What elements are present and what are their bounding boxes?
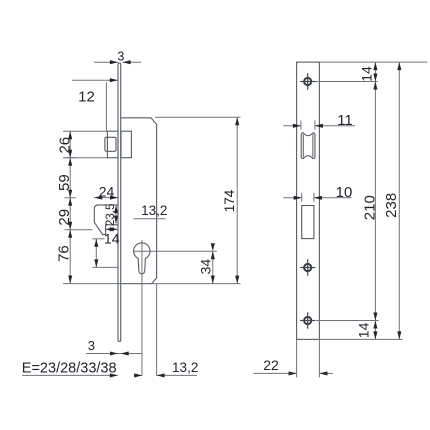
- svg-text:24: 24: [99, 183, 115, 199]
- svg-text:E=23/28/33/38: E=23/28/33/38: [22, 361, 117, 377]
- svg-text:238: 238: [383, 193, 400, 218]
- svg-text:10: 10: [336, 184, 353, 201]
- svg-text:59: 59: [56, 174, 73, 191]
- svg-text:174: 174: [222, 189, 237, 212]
- svg-text:14: 14: [358, 66, 374, 82]
- svg-text:14: 14: [356, 322, 372, 338]
- svg-text:13,2: 13,2: [141, 203, 167, 218]
- svg-text:3: 3: [117, 49, 124, 63]
- svg-text:12: 12: [78, 88, 95, 105]
- svg-text:210: 210: [361, 195, 378, 220]
- svg-text:3: 3: [88, 338, 95, 353]
- svg-text:14: 14: [104, 231, 120, 247]
- svg-text:23,5: 23,5: [105, 204, 117, 226]
- svg-text:22: 22: [263, 357, 279, 373]
- svg-text:76: 76: [55, 245, 72, 262]
- svg-text:11: 11: [337, 112, 353, 129]
- svg-text:26: 26: [56, 137, 73, 154]
- svg-text:34: 34: [197, 259, 213, 275]
- svg-text:29: 29: [56, 209, 73, 226]
- svg-text:13,2: 13,2: [172, 360, 198, 375]
